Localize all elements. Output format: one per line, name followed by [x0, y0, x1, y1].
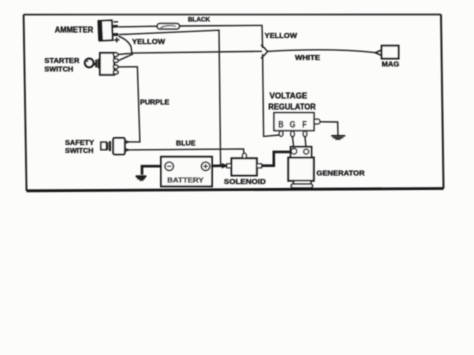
svg-text:AMMETER: AMMETER — [55, 26, 94, 35]
svg-text:BATTERY: BATTERY — [167, 176, 203, 185]
svg-text:MAG: MAG — [382, 60, 400, 69]
svg-text:G: G — [290, 119, 296, 129]
svg-text:YELLOW: YELLOW — [265, 31, 298, 40]
svg-text:BLACK: BLACK — [188, 16, 211, 23]
svg-text:YELLOW: YELLOW — [132, 37, 165, 46]
svg-text:REGULATOR: REGULATOR — [268, 101, 315, 111]
svg-text:B: B — [278, 119, 284, 129]
svg-text:GENERATOR: GENERATOR — [317, 169, 366, 178]
svg-text:SWITCH: SWITCH — [44, 64, 73, 73]
svg-text:PURPLE: PURPLE — [140, 97, 169, 106]
svg-text:WHITE: WHITE — [295, 55, 320, 62]
svg-text:SOLENOID: SOLENOID — [224, 177, 266, 186]
svg-text:VOLTAGE: VOLTAGE — [270, 91, 308, 101]
svg-text:SWITCH: SWITCH — [65, 146, 94, 155]
svg-text:BLUE: BLUE — [176, 140, 196, 147]
svg-text:F: F — [302, 119, 307, 129]
